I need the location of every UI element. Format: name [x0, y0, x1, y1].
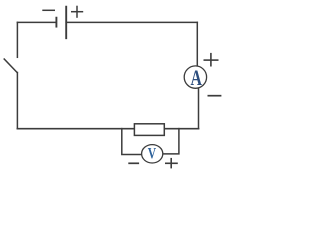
- svg-text:V: V: [148, 145, 156, 162]
- svg-text:A: A: [190, 67, 202, 91]
